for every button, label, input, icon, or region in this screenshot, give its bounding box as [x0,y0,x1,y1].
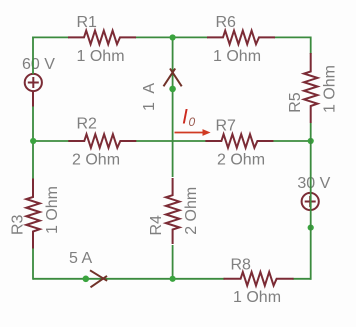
svg-text:R8: R8 [231,257,252,274]
wire right vertical through 30V [310,123,312,280]
svg-text:R1: R1 [77,14,98,31]
svg-text:1 Ohm: 1 Ohm [44,186,61,234]
resistor R7 [205,134,273,148]
svg-text:I: I [182,106,188,129]
junction dot top middle [170,34,176,40]
resistor R8 [224,272,294,286]
junction dot 1A arrow base [169,86,176,93]
resistor R4 [166,178,180,244]
resistor R2 [68,134,136,148]
svg-text:60 V: 60 V [22,56,55,73]
svg-text:R6: R6 [216,14,237,31]
resistor R3 [26,179,40,249]
svg-text:2 Ohm: 2 Ohm [72,152,120,169]
svg-text:R2: R2 [77,116,98,133]
wire top-right segment [274,36,312,38]
resistor R1 [68,31,136,45]
wire left vertical between 60V and R3 [32,106,34,180]
wire middle vertical lower [172,245,174,280]
junction dot right middle [308,138,314,144]
svg-text:2 Ohm: 2 Ohm [217,152,265,169]
svg-text:R3: R3 [10,214,27,235]
wire bottom-left segment [33,278,225,280]
voltage source 60V circle [25,74,42,107]
resistor R6 [207,31,275,45]
junction dot 5A arrow base [83,276,90,283]
svg-text:R5: R5 [287,92,304,113]
wire top-left segment [32,36,69,38]
wire right vertical above R5 [310,37,312,55]
wire middle-center segment [135,140,206,142]
svg-text:1 Ohm: 1 Ohm [77,48,125,65]
svg-text:1 Ohm: 1 Ohm [213,48,261,65]
svg-text:1 A: 1 A [141,83,158,111]
junction dot left middle [30,138,36,144]
voltage source 30V circle [302,193,319,210]
wire bottom-right segment [293,278,312,280]
wire middle-right segment [272,140,310,142]
wire middle vertical upper [172,37,174,178]
junction dot bottom middle [170,276,176,282]
svg-text:5 A: 5 A [69,250,92,267]
svg-text:R4: R4 [148,215,165,236]
svg-text:1 Ohm: 1 Ohm [321,65,338,113]
current source 1A arrow [164,69,182,87]
svg-text:2 Ohm: 2 Ohm [183,187,200,235]
svg-text:1 Ohm: 1 Ohm [233,289,281,306]
svg-text:30 V: 30 V [297,175,330,192]
wire left vertical above 60V [32,37,34,75]
wire middle-left segment [33,140,69,142]
current source 5A arrow [90,270,107,287]
svg-text:0: 0 [189,115,196,129]
junction dot below 30V [308,225,314,231]
svg-text:R7: R7 [216,118,237,135]
wire top-mid segment [135,36,208,38]
wire left vertical below R3 [32,248,34,280]
I0 arrow [175,129,211,136]
resistor R5 [304,53,318,123]
